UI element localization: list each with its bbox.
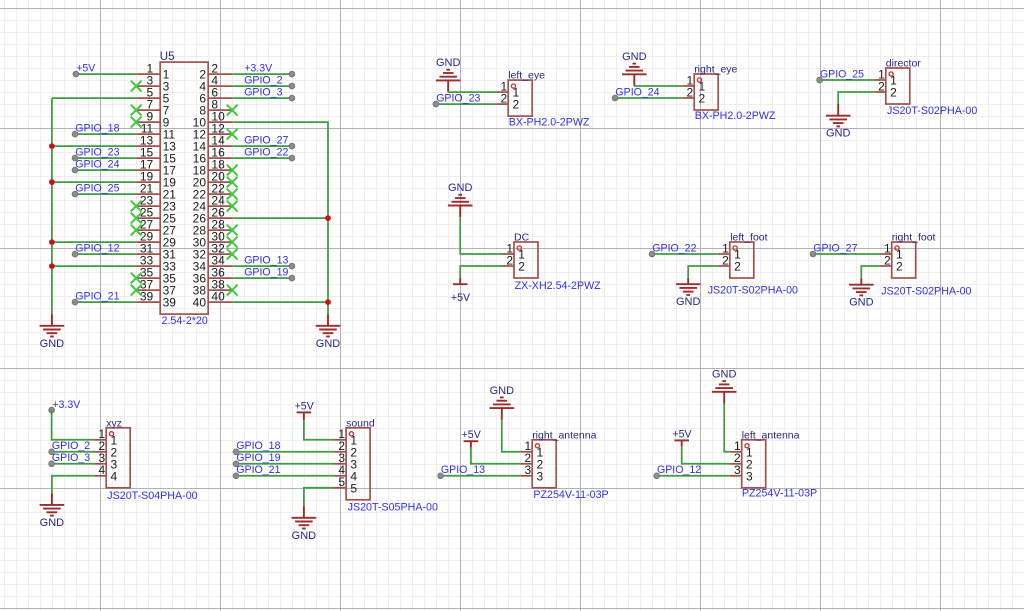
no-connect flag U5 pin 37 [131,285,142,296]
wire net GPIO_23 to U5 pin 15 [75,157,136,159]
svg-text:2.54-2*20: 2.54-2*20 [162,315,208,327]
J_sound pin 5 [334,475,357,495]
svg-text:3: 3 [537,469,544,483]
svg-text:GPIO_3: GPIO_3 [52,452,90,464]
J_left_antenna pin 2 [730,451,753,471]
svg-text:GND: GND [676,296,701,308]
ground GND (left_antenna) [712,369,737,404]
svg-text:BX-PH2.0-2PWZ: BX-PH2.0-2PWZ [695,110,776,122]
svg-text:GPIO_18: GPIO_18 [236,440,280,452]
wire net GPIO_22 to left_foot pin 1 [652,253,718,255]
wire U5 pin 6 to net GPIO_3 [232,97,292,99]
ground GND (U5 left) [40,314,65,350]
svg-text:2: 2 [687,85,694,99]
wire U5 pin 36 to net GPIO_19 [232,277,292,279]
svg-text:JS20T-S05PHA-00: JS20T-S05PHA-00 [348,502,438,514]
wire U5 pin 14 to net GPIO_27 [232,145,292,147]
power flag +5V (DC) [451,278,471,304]
wire net GPIO_23 to left_eye pin 2 [436,103,496,105]
svg-text:2: 2 [734,260,741,274]
svg-text:director: director [886,58,922,70]
svg-text:GPIO_18: GPIO_18 [75,122,119,134]
ground GND (xyz) [40,493,65,529]
svg-text:4: 4 [99,463,106,477]
wire U5 pin 40 to GND bus [232,301,328,303]
ground GND (U5 right) [316,314,341,350]
wire net GPIO_24 to U5 pin 17 [75,169,136,171]
J_left_eye pin 1 [496,79,519,99]
svg-text:GND: GND [40,338,65,350]
U5 pin 32 [193,242,233,262]
ground GND (director) [826,104,851,140]
svg-text:GND: GND [448,182,473,194]
J_left_eye body [508,80,532,116]
svg-text:GND: GND [490,385,515,397]
J_right_antenna body [532,440,556,488]
J_right_antenna pin 1 [520,439,543,459]
J_director body [886,68,910,104]
ground GND (left_eye) [436,57,461,92]
ground GND (sound) [292,506,317,542]
no-connect flag U5 pin 9 [131,117,142,128]
J_xyz pin 1 [94,427,117,447]
J_DC body [514,242,538,278]
svg-text:2: 2 [896,260,903,274]
connector J_left_antenna (left_antenna) [730,429,817,499]
wire right_foot pin 2 to GND [861,266,879,279]
U5 pin 31 [136,242,176,262]
no-connect flag U5 pin 8 [227,105,238,116]
wire GND bus to U5 pin 19 [52,181,136,183]
svg-text:left_eye: left_eye [508,70,545,82]
net label GPIO_12 [654,464,701,479]
svg-text:2: 2 [699,92,706,106]
no-connect flag U5 pin 28 [227,225,238,236]
U5 pin 8 [199,98,232,118]
power flag +5V (left_antenna) [672,428,692,446]
U5 pin 19 [136,170,176,190]
no-connect flag U5 pin 35 [131,273,142,284]
wire sound pin 5 to GND [304,488,334,506]
J_director pin 1 polarity circle [889,72,893,76]
U5 pin 9 [136,110,169,130]
svg-text:2: 2 [884,253,891,267]
svg-text:3: 3 [525,463,532,477]
junction GND bus / pin 40 row [325,299,331,305]
U5 pin 15 [136,146,176,166]
U5 pin 3 [136,74,169,94]
wire net GPIO_21 to U5 pin 39 [75,301,136,303]
svg-text:GPIO_19: GPIO_19 [236,452,280,464]
net label GPIO_18 [72,122,119,137]
svg-text:GPIO_25: GPIO_25 [75,182,119,194]
wire GND left bus vertical [51,98,53,314]
U5 pin 10 [193,110,233,130]
svg-text:GPIO_25: GPIO_25 [820,68,864,80]
net label GPIO_3 [49,452,90,467]
ground GND (right_foot) [849,279,874,309]
U5 pin 26 [193,206,233,226]
wire +5V to left_antenna pin 2 [682,447,730,464]
svg-text:GND: GND [849,297,874,309]
U5 pin 5 [136,86,169,106]
wire U5 pin 2 to net +3.3V [232,73,292,75]
svg-text:U5: U5 [160,51,175,63]
connector J_xyz (xyz) [94,417,197,502]
svg-text:GPIO_2: GPIO_2 [244,74,282,86]
J_sound body [346,428,370,500]
svg-text:2: 2 [890,86,897,100]
svg-text:+5V: +5V [295,400,315,412]
J_xyz pin 1 polarity circle [109,432,113,436]
wire net GPIO_12 to left_antenna pin 3 [657,475,730,477]
svg-text:GPIO_3: GPIO_3 [244,86,282,98]
svg-text:2: 2 [722,253,729,267]
J_xyz pin 3 [94,451,117,471]
svg-text:+5V: +5V [451,292,471,304]
net label GPIO_22 [649,242,696,256]
J_sound pin 1 [334,427,357,447]
J_right_eye body [694,74,718,110]
U5 pin 7 [136,98,169,118]
J_right_antenna pin 1 polarity circle [535,444,539,448]
svg-text:5: 5 [350,481,357,495]
J_left_antenna pin 1 polarity circle [745,444,749,448]
net label GPIO_27 [244,134,295,149]
wire GND bus to U5 pin 5 [52,97,136,99]
connector J_right_antenna (right_antenna) [520,429,608,501]
U5 pin 14 [193,134,233,154]
J_director pin 2 [874,79,897,99]
svg-text:GPIO_12: GPIO_12 [657,464,701,476]
svg-text:+5V: +5V [462,429,482,441]
net label GPIO_23 [72,146,119,161]
wire GND right bus (pin 10 down) [232,122,328,314]
connector J_right_foot (right_foot) [880,232,972,298]
no-connect flag U5 pin 38 [227,285,238,296]
U5 body [160,62,208,314]
svg-text:BX-PH2.0-2PWZ: BX-PH2.0-2PWZ [509,117,590,129]
wire net GPIO_25 to U5 pin 21 [75,193,136,195]
svg-text:GPIO_13: GPIO_13 [441,464,485,476]
J_left_foot pin 1 polarity circle [733,246,737,250]
J_left_foot pin 1 [718,241,741,261]
net label +3.3V [244,62,295,76]
U5 pin 21 [136,182,176,202]
J_xyz pin 4 [94,463,117,483]
U5 pin 1 [136,62,169,82]
junction GND bus / pin 19 row [49,179,55,185]
net label GPIO_19 [244,266,295,281]
ground GND (DC) [448,182,473,217]
svg-text:GND: GND [712,369,737,381]
J_left_foot body [730,242,754,278]
svg-text:39: 39 [163,296,177,310]
wire xyz pin 4 to GND [52,476,94,493]
J_DC pin 2 [502,253,525,273]
J_right_eye pin 1 polarity circle [697,78,701,82]
svg-text:GPIO_19: GPIO_19 [244,266,288,278]
wire +5V to sound pin 1 [304,420,334,440]
svg-text:JS20T-S02PHA-00: JS20T-S02PHA-00 [881,286,971,298]
connector J_left_foot (left_foot) [708,232,798,297]
no-connect flag U5 pin 32 [227,249,238,260]
J_sound pin 1 polarity circle [349,432,353,436]
connector J_DC (DC) [502,232,601,292]
svg-text:DC: DC [514,232,530,244]
svg-text:GPIO_23: GPIO_23 [75,146,119,158]
svg-text:GPIO_13: GPIO_13 [244,254,288,266]
svg-text:GPIO_27: GPIO_27 [813,242,857,254]
net label GPIO_27 [810,242,857,256]
svg-text:+5V: +5V [76,62,96,74]
wire net GPIO_27 to right_foot pin 1 [813,253,880,255]
svg-text:GPIO_12: GPIO_12 [75,242,119,254]
wire GND to right_antenna pin 1 [502,420,520,452]
net label GPIO_21 [233,464,280,479]
U5 pin 25 [136,206,176,226]
wire GND to right_eye pin 1 [634,85,682,87]
wire net GPIO_21 to sound pin 4 [236,475,334,477]
wire net GPIO_2 to xyz pin 2 [52,451,95,453]
junction GND bus / pin 13 row [49,143,55,149]
svg-text:GND: GND [436,57,461,69]
svg-text:3: 3 [734,463,741,477]
no-connect flag U5 pin 30 [227,237,238,248]
svg-text:3: 3 [746,469,753,483]
wire net GPIO_18 to sound pin 2 [236,451,334,453]
no-connect flag U5 pin 18 [227,165,238,176]
svg-text:40: 40 [193,296,207,310]
svg-text:GPIO_21: GPIO_21 [236,464,280,476]
svg-text:+3.3V: +3.3V [52,399,81,411]
svg-text:40: 40 [211,290,225,304]
U5 pin 38 [193,278,233,298]
wire net GPIO_13 to right_antenna pin 3 [441,475,521,477]
J_DC pin 1 [502,241,525,261]
U5 pin 20 [193,170,233,190]
U5 pin 4 [199,74,232,94]
connector J_director (director) [874,58,978,117]
no-connect flag U5 pin 23 [131,201,142,212]
net label GPIO_2 [49,440,90,455]
U5 pin 23 [136,194,176,214]
J_sound pin 3 [334,451,357,471]
net label GPIO_13 [438,464,485,479]
J_sound pin 4 [334,463,357,483]
wire GND bus to U5 pin 33 [52,265,136,267]
svg-text:5: 5 [338,475,345,489]
svg-text:JS20T-S02PHA-00: JS20T-S02PHA-00 [708,284,798,296]
wire +5V to right_antenna pin 2 [471,448,520,464]
svg-text:GPIO_22: GPIO_22 [652,242,696,254]
no-connect flag U5 pin 20 [227,177,238,188]
U5 pin 17 [136,158,176,178]
wire GND to left_antenna pin 1 [724,404,730,452]
U5 pin 27 [136,218,176,238]
wire U5 pin 4 to net GPIO_2 [232,85,292,87]
ground GND (left_foot) [676,278,701,308]
no-connect flag U5 pin 25 [131,213,142,224]
svg-text:GPIO_21: GPIO_21 [75,290,119,302]
net label GPIO_25 [72,182,119,197]
svg-text:right_foot: right_foot [892,232,936,244]
net label GPIO_12 [72,242,119,257]
svg-text:GPIO_22: GPIO_22 [244,146,288,158]
net label +5V [73,62,96,76]
U5 pin 39 [136,290,176,310]
svg-text:GPIO_23: GPIO_23 [436,92,480,104]
svg-text:GND: GND [826,128,851,140]
svg-text:39: 39 [140,290,154,304]
net label GPIO_13 [244,254,295,269]
J_right_foot pin 1 polarity circle [895,246,899,250]
J_xyz pin 2 [94,439,117,459]
wire GND to left_eye pin 1 [448,91,496,93]
U5 pin 2 [199,62,232,82]
U5 pin 6 [199,86,232,106]
wire net GPIO_25 to director pin 1 [820,79,874,81]
J_right_foot pin 2 [880,253,903,273]
svg-text:ZX-XH2.54-2PWZ: ZX-XH2.54-2PWZ [515,280,602,292]
svg-text:left_antenna: left_antenna [742,429,800,441]
svg-text:left_foot: left_foot [730,232,767,244]
connector J_left_eye (left_eye) [496,70,590,129]
net label GPIO_22 [244,146,295,161]
svg-text:GPIO_24: GPIO_24 [75,158,119,170]
svg-text:2: 2 [878,79,885,93]
J_right_antenna pin 2 [520,451,543,471]
power flag +5V (right_antenna) [462,429,482,447]
U5 pin 30 [193,230,233,250]
svg-text:+3.3V: +3.3V [244,62,273,74]
wire U5 pin 16 to net GPIO_22 [232,157,292,159]
no-connect flag U5 pin 12 [227,129,238,140]
U5 pin 24 [193,194,233,214]
U5 pin 29 [136,230,176,250]
wire U5 pin 26 to GND bus [232,217,328,219]
ground GND (right_eye) [622,51,647,86]
wire director pin 2 to GND [838,92,874,104]
wire GND to DC pin 1 [460,217,502,254]
J_left_foot pin 2 [718,253,741,273]
svg-text:GPIO_2: GPIO_2 [52,440,90,452]
junction GND bus / pin 33 row [49,263,55,269]
J_director pin 1 [874,67,897,87]
U5 pin 35 [136,266,176,286]
net label GPIO_25 [817,68,864,82]
wire DC pin 2 to +5V [460,266,502,278]
U5 pin 16 [193,146,233,166]
svg-text:sound: sound [346,417,375,429]
svg-text:PZ254V-11-03P: PZ254V-11-03P [533,489,608,501]
svg-text:2: 2 [518,260,525,274]
U5 pin 13 [136,134,176,154]
svg-text:GND: GND [316,338,341,350]
wire net GPIO_3 to xyz pin 3 [52,463,95,465]
J_right_antenna pin 3 [520,463,543,483]
U5 pin 36 [193,266,233,286]
svg-text:JS20T-S04PHA-00: JS20T-S04PHA-00 [107,490,197,502]
U5 pin 22 [193,182,233,202]
wire net GPIO_12 to U5 pin 31 [75,253,136,255]
U5 pin 28 [193,218,233,238]
wire net +3.3V to xyz pin 1 [52,410,95,440]
net label GPIO_18 [233,440,280,455]
no-connect flag U5 pin 27 [131,225,142,236]
svg-text:GPIO_24: GPIO_24 [615,86,659,98]
svg-text:xyz: xyz [106,417,122,429]
svg-text:GPIO_27: GPIO_27 [244,134,288,146]
junction GND bus / pin 29 row [49,239,55,245]
U5 pin 11 [136,122,175,142]
U5 pin 12 [193,122,233,142]
U5 pin 37 [136,278,176,298]
svg-text:GND: GND [622,51,647,63]
J_right_foot body [892,242,916,278]
net label GPIO_24 [72,158,119,173]
wire net GPIO_19 to sound pin 3 [236,463,334,465]
no-connect flag U5 pin 24 [227,201,238,212]
svg-text:right_eye: right_eye [694,64,737,76]
power flag +5V (sound) [295,400,315,420]
wire U5 pin 34 to net GPIO_13 [232,265,292,267]
J_right_foot pin 1 [880,241,903,261]
net label GPIO_3 [244,86,295,100]
svg-text:JS20T-S02PHA-00: JS20T-S02PHA-00 [887,105,977,117]
svg-text:2: 2 [501,91,508,105]
wire net +5V to U5 pin 1 [76,73,136,75]
J_left_antenna pin 1 [730,439,753,459]
no-connect flag U5 pin 3 [131,81,142,92]
wire net GPIO_24 to right_eye pin 2 [615,97,682,99]
no-connect flag U5 pin 22 [227,189,238,200]
wire GND bus to U5 pin 29 [52,241,136,243]
J_sound pin 2 [334,439,357,459]
U5 pin 18 [193,158,233,178]
net label GPIO_19 [233,452,280,467]
svg-text:right_antenna: right_antenna [532,429,596,441]
U5 pin 34 [193,254,233,274]
net label GPIO_24 [612,86,659,100]
U5 pin 33 [136,254,176,274]
J_xyz body [106,428,130,488]
U5 pin 40 [193,290,233,310]
J_right_eye pin 2 [682,85,705,105]
J_left_antenna pin 3 [730,463,753,483]
net label +3.3V (xyz) [49,399,81,413]
wire net GPIO_18 to U5 pin 11 [75,133,136,135]
connector U5 (2.54-2*20 40-pin header) [136,51,232,327]
J_left_eye pin 1 polarity circle [511,84,515,88]
net label GPIO_23 [433,92,480,106]
J_right_eye pin 1 [682,73,705,93]
wire GND bus to U5 pin 13 [52,145,136,147]
J_left_eye pin 2 [496,91,519,111]
svg-text:2: 2 [513,98,520,112]
svg-text:GND: GND [40,517,65,529]
connector J_right_eye (right_eye) [682,64,776,122]
svg-text:2: 2 [506,253,513,267]
svg-text:4: 4 [111,469,118,483]
net label GPIO_21 [72,290,119,305]
junction GND bus / pin 26 row [325,215,331,221]
J_left_antenna body [742,440,766,488]
no-connect flag U5 pin 7 [131,105,142,116]
J_DC pin 1 polarity circle [517,246,521,250]
svg-text:+5V: +5V [672,428,692,440]
ground GND (right_antenna) [490,385,515,420]
